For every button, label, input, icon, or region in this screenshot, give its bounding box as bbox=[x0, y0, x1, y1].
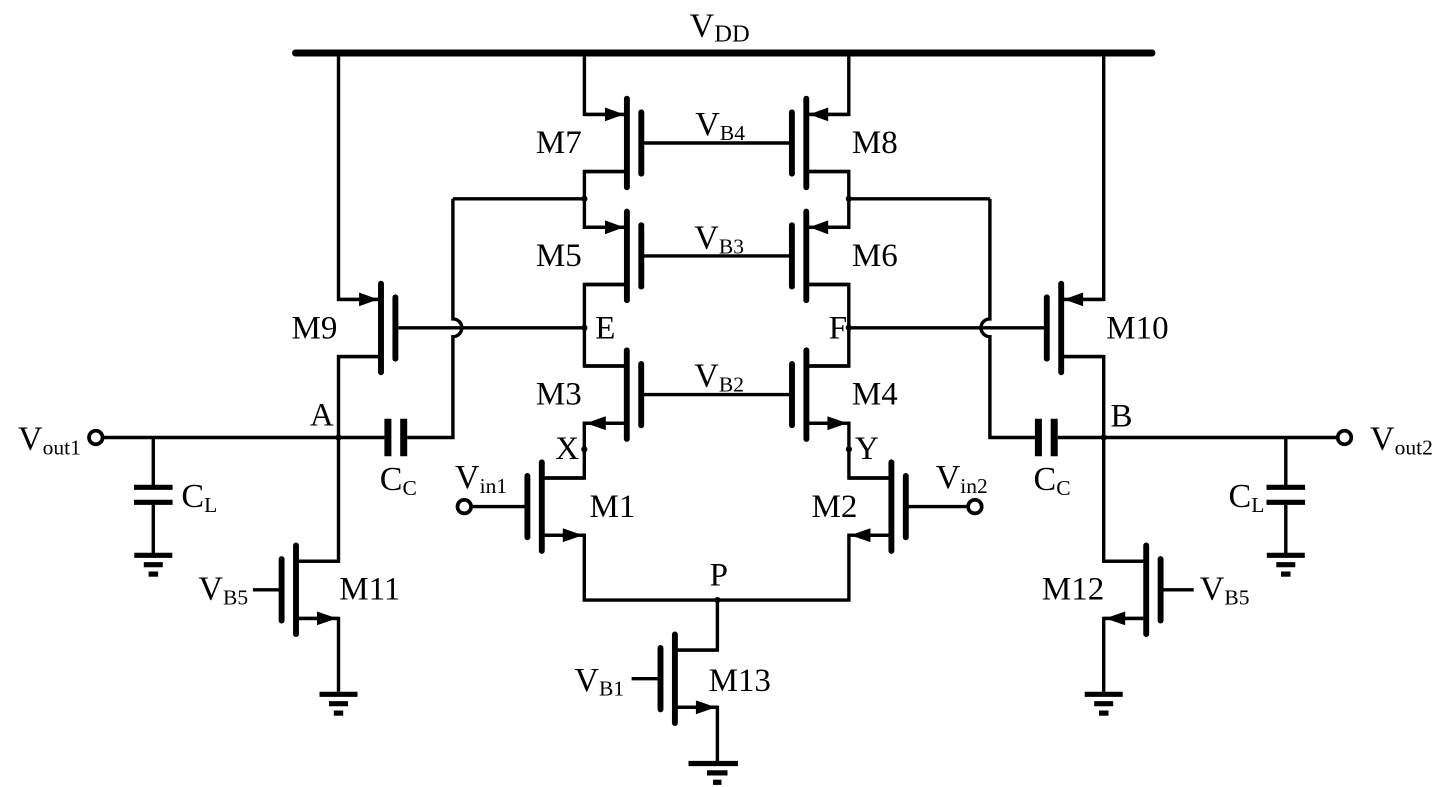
capacitor CL (left) bbox=[134, 487, 173, 502]
wire M3 source to node X to M1 drain bbox=[542, 423, 627, 478]
svg-text:B2: B2 bbox=[719, 372, 744, 396]
svg-text:out1: out1 bbox=[43, 435, 81, 459]
wire CL (right) bottom plate to ground bbox=[1284, 505, 1287, 553]
svg-text:Y: Y bbox=[855, 431, 879, 467]
svg-text:V: V bbox=[936, 459, 961, 496]
wire output rail Vout1 to node A to CC bbox=[103, 436, 385, 439]
wire M5 drain to node E to M3 drain bbox=[584, 285, 627, 367]
label M12 bbox=[1042, 572, 1104, 608]
wire M12 source to ground bbox=[1104, 618, 1147, 691]
label VB5 (right) bbox=[1200, 571, 1250, 610]
transistor M8 bbox=[792, 99, 849, 188]
wire M6 drain to node F to M4 drain bbox=[806, 285, 849, 367]
wire M13 source to ground bbox=[675, 707, 718, 761]
label M8 bbox=[852, 125, 898, 161]
ground below M13 bbox=[689, 764, 739, 783]
wire VDD to M8 source bbox=[806, 53, 849, 114]
capacitor CC (left) bbox=[388, 419, 404, 456]
ground below M11 bbox=[320, 694, 358, 713]
svg-text:B4: B4 bbox=[720, 121, 745, 145]
wire Vin1 to M1 gate bbox=[471, 505, 527, 508]
transistor M13 bbox=[661, 634, 718, 723]
svg-text:B5: B5 bbox=[223, 586, 248, 610]
label Vin2 bbox=[936, 459, 988, 498]
svg-text:B: B bbox=[1111, 399, 1133, 435]
svg-text:L: L bbox=[204, 493, 217, 517]
svg-text:C: C bbox=[1229, 478, 1252, 515]
label CC (right) bbox=[1034, 461, 1071, 500]
svg-text:M3: M3 bbox=[536, 377, 582, 413]
transistor M3 bbox=[584, 350, 641, 439]
svg-text:V: V bbox=[694, 358, 719, 395]
label node B bbox=[1111, 399, 1133, 435]
svg-text:E: E bbox=[595, 311, 615, 347]
label VB4 bbox=[695, 106, 745, 145]
svg-text:X: X bbox=[555, 431, 579, 467]
svg-text:C: C bbox=[1056, 476, 1070, 500]
svg-text:M11: M11 bbox=[339, 572, 400, 608]
wire CL (left) bottom plate to ground bbox=[152, 505, 155, 553]
node A junction bbox=[335, 434, 341, 440]
label VDD bbox=[690, 8, 750, 48]
svg-text:C: C bbox=[380, 461, 403, 498]
label node A bbox=[310, 398, 334, 434]
transistor M6 bbox=[792, 212, 849, 301]
wire VDD to M7 source bbox=[584, 53, 627, 114]
wire CC to node B to output rail Vout2 bbox=[1058, 436, 1338, 439]
terminal Vout1 bbox=[89, 431, 103, 445]
label M1 bbox=[590, 489, 636, 525]
label M7 bbox=[536, 125, 582, 161]
label VB5 (left) bbox=[198, 571, 248, 610]
wire VDD to M10 source bbox=[1061, 53, 1104, 299]
wire M4 source to node Y to M2 drain bbox=[806, 423, 891, 478]
label M5 bbox=[536, 238, 582, 274]
node F junction bbox=[846, 325, 852, 331]
svg-text:P: P bbox=[710, 557, 728, 593]
label M10 bbox=[1106, 311, 1168, 347]
node Y junction bbox=[846, 446, 852, 452]
label CL (left) bbox=[181, 478, 217, 517]
label Vout2 bbox=[1370, 420, 1433, 459]
label CC (left) bbox=[380, 461, 417, 500]
svg-text:DD: DD bbox=[714, 21, 749, 48]
svg-text:M13: M13 bbox=[709, 663, 771, 699]
node M8 drain junction bbox=[846, 196, 852, 202]
svg-text:V: V bbox=[1200, 571, 1225, 608]
terminal Vin2 bbox=[968, 500, 982, 514]
svg-text:M9: M9 bbox=[292, 311, 338, 347]
wire CC column right with hop over M10 gate wire bbox=[981, 199, 1035, 438]
label M9 bbox=[292, 311, 338, 347]
node P junction bbox=[714, 597, 720, 603]
transistor M2 bbox=[849, 462, 906, 551]
svg-text:M5: M5 bbox=[536, 238, 582, 274]
wire junction to CC column right bbox=[849, 197, 990, 200]
wire Vout1 rail to CL (left) top plate bbox=[152, 438, 155, 486]
svg-text:V: V bbox=[574, 662, 599, 699]
wire M9 drain to node A to M11 drain bbox=[296, 357, 381, 562]
wire CC column left with hop over M9 gate wire bbox=[407, 199, 462, 438]
svg-text:V: V bbox=[198, 571, 223, 608]
label VB3 bbox=[694, 219, 744, 258]
ground below CL (right) bbox=[1267, 555, 1305, 574]
terminal Vin1 bbox=[458, 500, 472, 514]
transistor M9 bbox=[339, 284, 396, 373]
svg-text:M7: M7 bbox=[536, 125, 582, 161]
ground below M12 bbox=[1085, 694, 1123, 713]
wire M8 drain to M6 source bbox=[806, 172, 849, 228]
label node X bbox=[555, 431, 579, 467]
transistor M10 bbox=[1047, 284, 1104, 373]
svg-text:V: V bbox=[690, 8, 715, 45]
wire Vout2 rail to CL (right) top plate bbox=[1284, 438, 1287, 486]
svg-text:V: V bbox=[455, 459, 480, 496]
svg-text:V: V bbox=[694, 219, 719, 256]
wire gate bias VB4 (M7-M8 gates) bbox=[641, 141, 792, 144]
svg-text:C: C bbox=[1034, 461, 1057, 498]
svg-text:V: V bbox=[1370, 420, 1395, 457]
svg-text:B5: B5 bbox=[1224, 586, 1249, 610]
wire junction to CC column left bbox=[453, 197, 585, 200]
wire gate bias VB2 (M3-M4 gates) bbox=[641, 393, 792, 396]
svg-text:C: C bbox=[403, 476, 417, 500]
label M3 bbox=[536, 377, 582, 413]
svg-text:out2: out2 bbox=[1395, 435, 1433, 459]
wire M12 gate to VB5 stub bbox=[1161, 588, 1194, 591]
label M2 bbox=[812, 489, 858, 525]
node X junction bbox=[581, 446, 587, 452]
label node F bbox=[829, 311, 847, 347]
wire M2 gate to Vin2 bbox=[906, 505, 968, 508]
svg-text:C: C bbox=[181, 478, 204, 515]
label M6 bbox=[852, 238, 898, 274]
transistor M12 bbox=[1104, 546, 1161, 635]
terminal Vout2 bbox=[1338, 431, 1352, 445]
capacitor CC (right) bbox=[1038, 419, 1054, 456]
wire VDD to M9 source bbox=[339, 53, 382, 299]
transistor M1 bbox=[527, 462, 584, 551]
svg-text:M10: M10 bbox=[1106, 311, 1168, 347]
label VB2 bbox=[694, 358, 744, 397]
svg-text:F: F bbox=[829, 311, 847, 347]
node B junction bbox=[1101, 434, 1107, 440]
svg-text:M8: M8 bbox=[852, 125, 898, 161]
label node E bbox=[595, 311, 615, 347]
svg-text:in1: in1 bbox=[480, 474, 507, 498]
node M7 drain junction bbox=[581, 196, 587, 202]
svg-text:V: V bbox=[695, 106, 720, 143]
label M13 bbox=[709, 663, 771, 699]
transistor M7 bbox=[584, 99, 641, 188]
wire VB1 stub to M13 gate bbox=[632, 677, 661, 680]
label M11 bbox=[339, 572, 400, 608]
svg-text:M12: M12 bbox=[1042, 572, 1104, 608]
wire M10 drain to node B to M12 drain bbox=[1061, 357, 1146, 562]
svg-text:M1: M1 bbox=[590, 489, 636, 525]
transistor M11 bbox=[282, 546, 339, 635]
capacitor CL (right) bbox=[1267, 487, 1306, 502]
label node Y bbox=[855, 431, 879, 467]
wire M7 drain to M5 source bbox=[584, 172, 627, 228]
svg-text:M4: M4 bbox=[852, 377, 898, 413]
label Vin1 bbox=[455, 459, 507, 498]
label node P bbox=[710, 557, 728, 593]
label Vout1 bbox=[18, 420, 81, 459]
wire node F to M10 gate bbox=[849, 326, 1047, 329]
svg-text:M2: M2 bbox=[812, 489, 858, 525]
label CL (right) bbox=[1229, 478, 1265, 517]
wire M1 source to tail rail P to M2 source bbox=[542, 535, 892, 600]
node E junction bbox=[581, 325, 587, 331]
svg-text:A: A bbox=[310, 398, 334, 434]
svg-text:B3: B3 bbox=[719, 234, 744, 258]
wire M11 source to ground bbox=[296, 618, 339, 691]
wire gate bias VB3 (M5-M6 gates) bbox=[641, 254, 792, 257]
svg-text:V: V bbox=[18, 420, 43, 457]
label M4 bbox=[852, 377, 898, 413]
wire node E to M9 gate bbox=[398, 326, 584, 329]
power rail VDD bbox=[296, 50, 1153, 57]
ground below CL (left) bbox=[134, 555, 172, 574]
svg-text:M6: M6 bbox=[852, 238, 898, 274]
svg-text:L: L bbox=[1251, 493, 1264, 517]
wire node P to M13 drain bbox=[675, 600, 718, 650]
transistor M5 bbox=[584, 212, 641, 301]
svg-text:B1: B1 bbox=[599, 677, 624, 701]
transistor M4 bbox=[792, 350, 849, 439]
label VB1 bbox=[574, 662, 624, 701]
wire VB5 stub to M11 gate bbox=[253, 588, 282, 591]
svg-text:in2: in2 bbox=[960, 474, 987, 498]
